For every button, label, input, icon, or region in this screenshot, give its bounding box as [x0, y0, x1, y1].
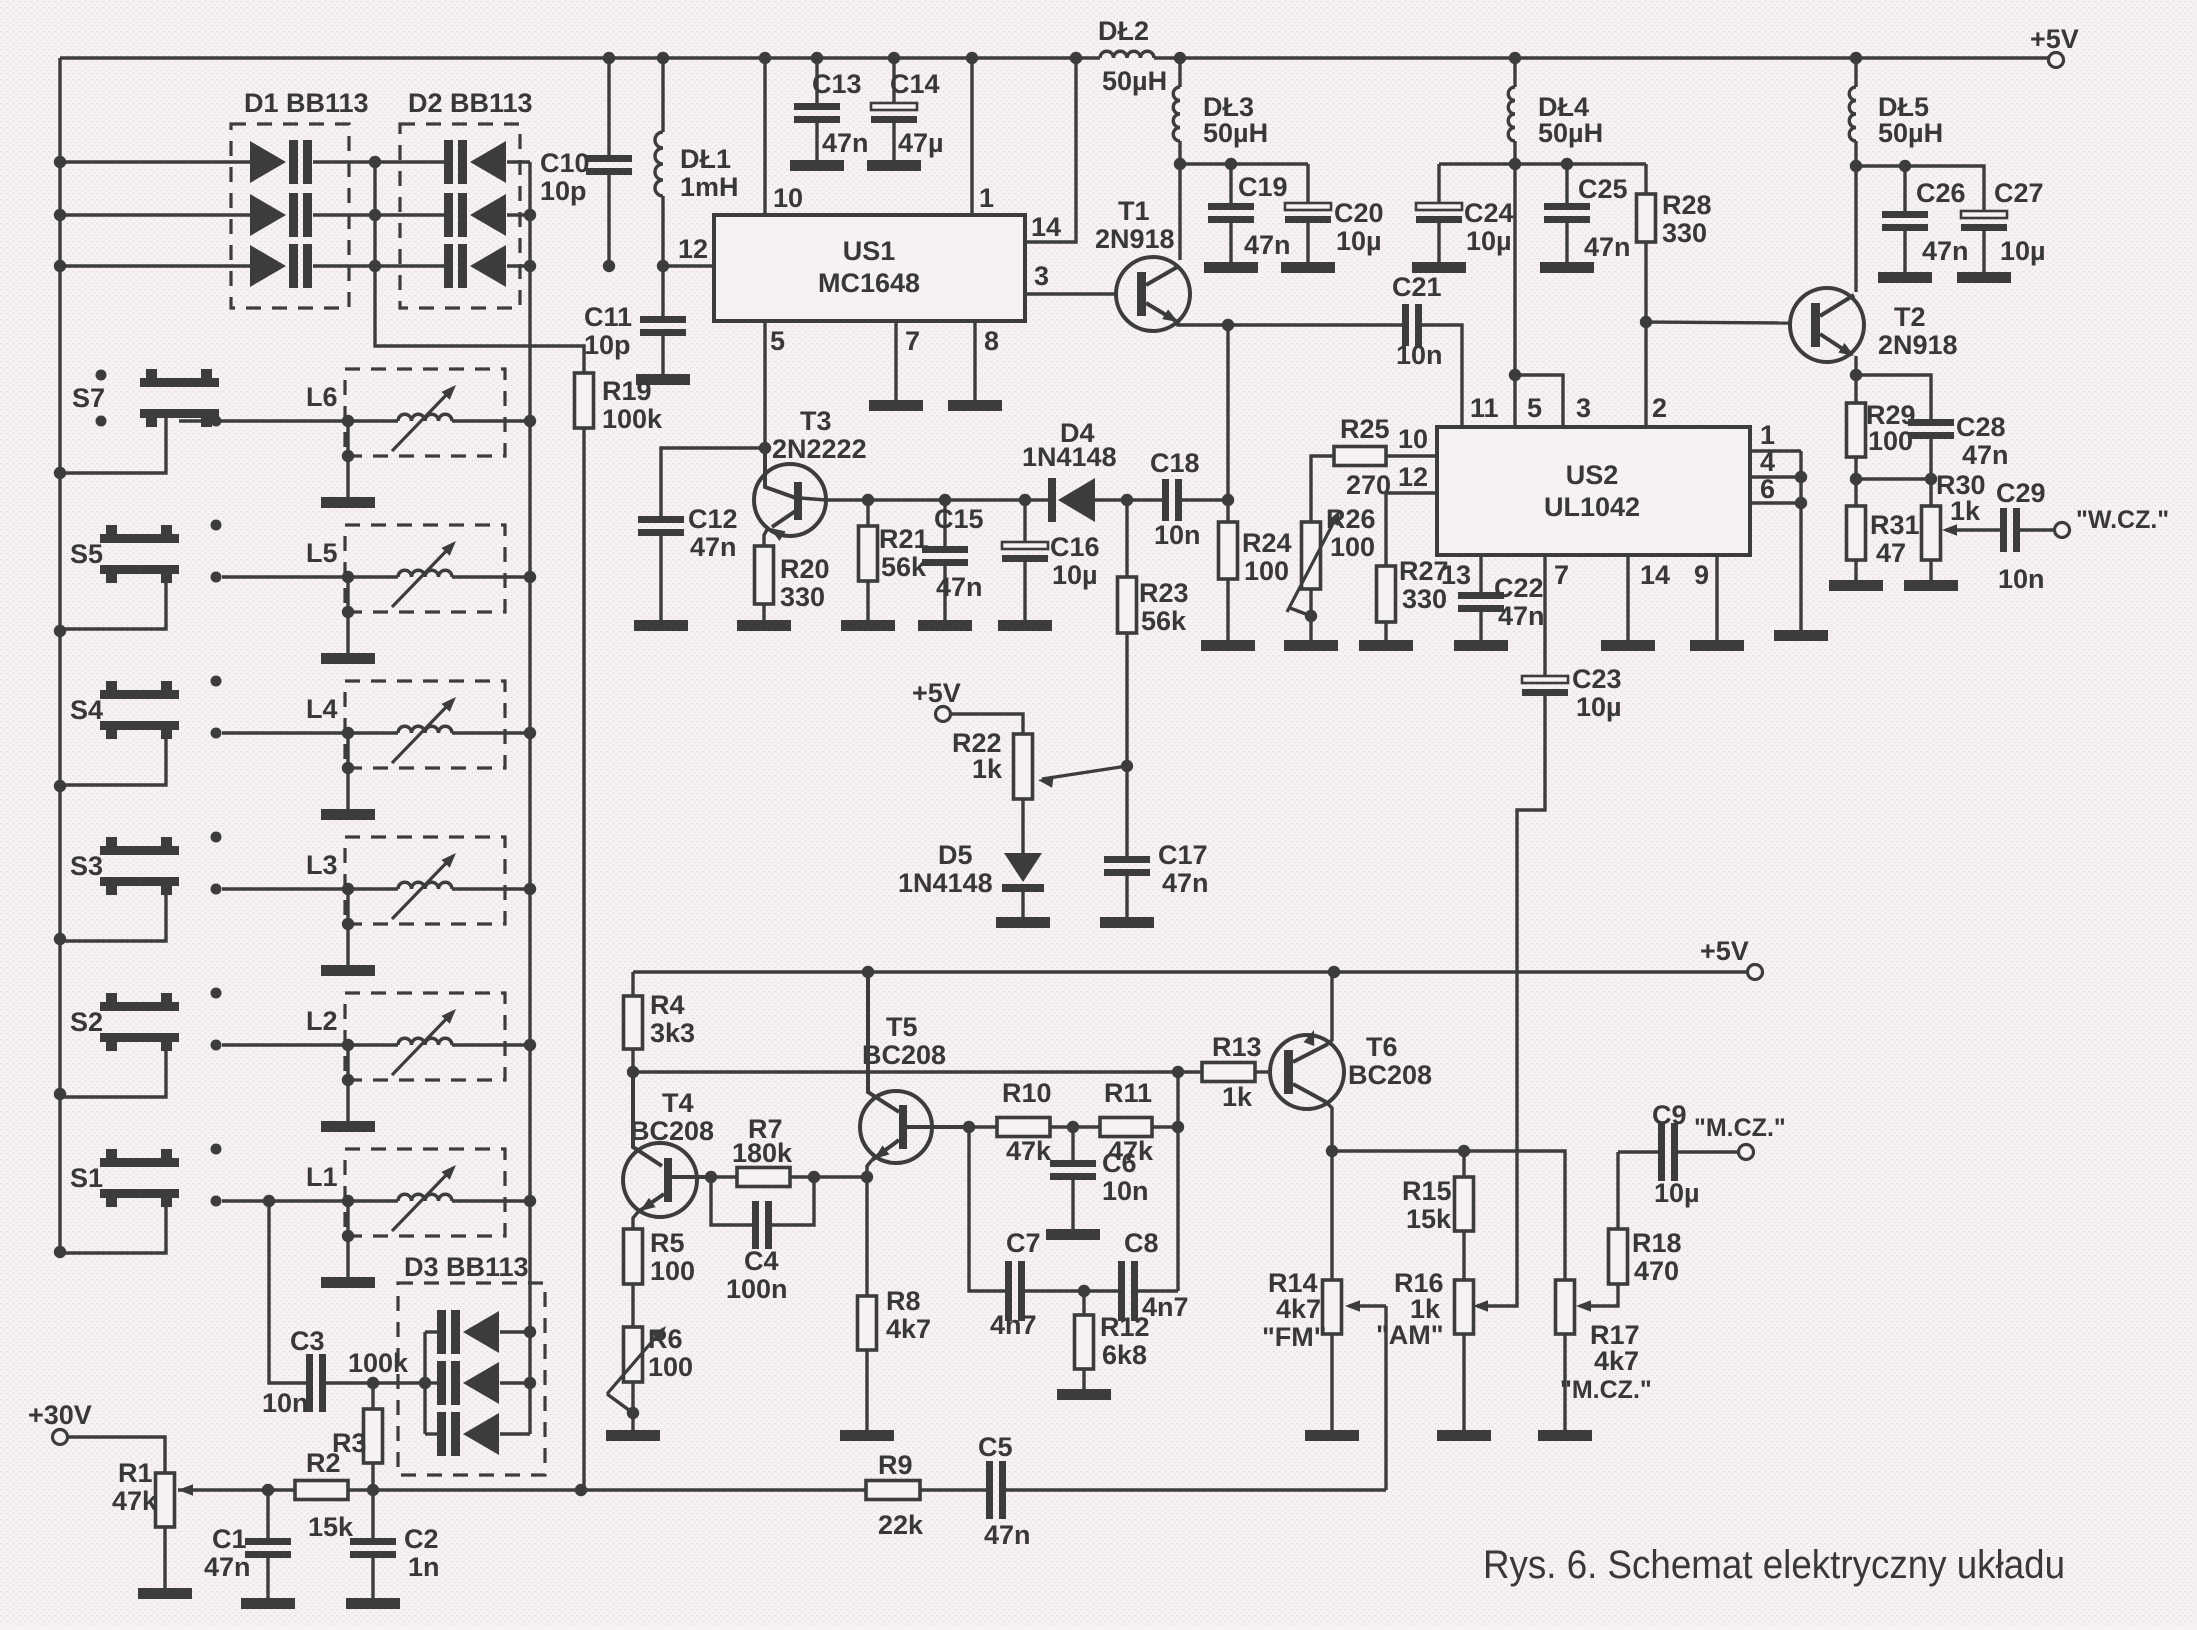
svg-text:4k7: 4k7	[1276, 1294, 1321, 1324]
svg-text:C7: C7	[1006, 1228, 1041, 1258]
svg-text:T5: T5	[886, 1012, 918, 1042]
svg-text:1: 1	[1760, 420, 1775, 450]
svg-text:8: 8	[984, 326, 999, 356]
svg-text:100n: 100n	[726, 1274, 788, 1304]
svg-text:2: 2	[1652, 393, 1667, 423]
svg-text:1N4148: 1N4148	[1022, 442, 1117, 472]
svg-text:14: 14	[1640, 560, 1670, 590]
svg-text:1k: 1k	[1950, 496, 1981, 526]
svg-text:C25: C25	[1578, 174, 1628, 204]
svg-text:22k: 22k	[878, 1510, 924, 1540]
svg-text:T6: T6	[1366, 1032, 1398, 1062]
svg-text:100: 100	[1330, 532, 1375, 562]
svg-text:10p: 10p	[584, 330, 631, 360]
svg-text:+30V: +30V	[28, 1400, 92, 1430]
svg-text:5: 5	[770, 326, 785, 356]
svg-text:T1: T1	[1118, 196, 1150, 226]
svg-text:1: 1	[979, 183, 994, 213]
svg-text:10: 10	[1398, 424, 1428, 454]
svg-text:100: 100	[648, 1352, 693, 1382]
svg-text:R10: R10	[1002, 1078, 1052, 1108]
svg-text:10n: 10n	[1396, 340, 1443, 370]
svg-text:S3: S3	[70, 851, 103, 881]
svg-text:5: 5	[1527, 393, 1542, 423]
svg-text:DŁ2: DŁ2	[1098, 16, 1149, 46]
svg-text:R19: R19	[602, 376, 652, 406]
svg-text:S7: S7	[72, 383, 105, 413]
svg-text:D1 BB113: D1 BB113	[244, 88, 369, 118]
svg-text:100k: 100k	[602, 404, 663, 434]
svg-text:S2: S2	[70, 1007, 103, 1037]
svg-text:3: 3	[1576, 393, 1591, 423]
svg-text:3k3: 3k3	[650, 1018, 695, 1048]
svg-text:R18: R18	[1632, 1228, 1682, 1258]
svg-text:C6: C6	[1102, 1148, 1137, 1178]
svg-text:T3: T3	[800, 406, 832, 436]
svg-text:+5V: +5V	[1700, 936, 1749, 966]
svg-text:MC1648: MC1648	[818, 268, 920, 298]
svg-text:Rys. 6. Schemat elektryczny uk: Rys. 6. Schemat elektryczny układu	[1483, 1543, 2065, 1587]
svg-text:10µ: 10µ	[1466, 226, 1512, 256]
svg-text:47k: 47k	[1006, 1136, 1052, 1166]
svg-text:R28: R28	[1662, 190, 1712, 220]
svg-text:47n: 47n	[1922, 236, 1969, 266]
svg-text:S5: S5	[70, 539, 103, 569]
svg-text:C2: C2	[404, 1524, 439, 1554]
svg-text:R25: R25	[1340, 414, 1390, 444]
svg-text:10µ: 10µ	[1336, 226, 1382, 256]
svg-text:47n: 47n	[1244, 230, 1291, 260]
svg-text:C14: C14	[890, 69, 940, 99]
svg-text:47n: 47n	[1584, 232, 1631, 262]
svg-text:6: 6	[1760, 474, 1775, 504]
svg-text:T4: T4	[662, 1088, 694, 1118]
svg-text:100: 100	[1868, 426, 1913, 456]
svg-text:C12: C12	[688, 504, 738, 534]
svg-text:C28: C28	[1956, 412, 2006, 442]
svg-text:12: 12	[1398, 462, 1428, 492]
svg-text:14: 14	[1031, 212, 1061, 242]
svg-text:100: 100	[650, 1256, 695, 1286]
svg-text:C9: C9	[1652, 1100, 1687, 1130]
svg-text:10µ: 10µ	[2000, 236, 2046, 266]
svg-text:D3 BB113: D3 BB113	[404, 1252, 529, 1282]
svg-text:"M.CZ.": "M.CZ."	[1560, 1376, 1652, 1404]
svg-text:S1: S1	[70, 1163, 103, 1193]
svg-text:10µ: 10µ	[1654, 1178, 1700, 1208]
svg-text:C3: C3	[290, 1326, 325, 1356]
svg-text:C5: C5	[978, 1432, 1013, 1462]
svg-text:50µH: 50µH	[1538, 118, 1603, 148]
svg-text:12: 12	[678, 234, 708, 264]
svg-text:BC208: BC208	[1348, 1060, 1432, 1090]
svg-text:47n: 47n	[1962, 440, 2009, 470]
svg-text:50µH: 50µH	[1203, 118, 1268, 148]
svg-text:"AM": "AM"	[1376, 1320, 1444, 1350]
svg-text:C21: C21	[1392, 272, 1442, 302]
svg-text:1k: 1k	[1222, 1082, 1253, 1112]
svg-text:R20: R20	[780, 554, 830, 584]
svg-text:R21: R21	[879, 524, 929, 554]
svg-text:15k: 15k	[1406, 1204, 1452, 1234]
svg-text:C29: C29	[1996, 478, 2046, 508]
svg-text:9: 9	[1694, 560, 1709, 590]
svg-text:56k: 56k	[1141, 606, 1187, 636]
svg-text:330: 330	[1402, 584, 1447, 614]
svg-text:R11: R11	[1104, 1078, 1152, 1108]
svg-text:C1: C1	[212, 1524, 247, 1554]
svg-text:C8: C8	[1124, 1228, 1159, 1258]
svg-text:47µ: 47µ	[898, 128, 944, 158]
svg-text:10µ: 10µ	[1576, 692, 1622, 722]
svg-text:4n7: 4n7	[990, 1310, 1037, 1340]
svg-text:"M.CZ.": "M.CZ."	[1694, 1114, 1786, 1142]
svg-text:470: 470	[1634, 1256, 1679, 1286]
svg-text:+5V: +5V	[2030, 24, 2079, 54]
svg-text:47: 47	[1876, 538, 1906, 568]
svg-text:47k: 47k	[112, 1486, 158, 1516]
svg-text:R23: R23	[1139, 578, 1189, 608]
svg-text:10µ: 10µ	[1052, 560, 1098, 590]
svg-text:50µH: 50µH	[1878, 118, 1943, 148]
svg-text:DŁ1: DŁ1	[680, 144, 731, 174]
svg-text:3: 3	[1034, 261, 1049, 291]
svg-text:R12: R12	[1100, 1312, 1150, 1342]
svg-text:47n: 47n	[984, 1520, 1031, 1550]
svg-text:2N2222: 2N2222	[772, 434, 867, 464]
svg-text:L5: L5	[306, 538, 338, 568]
svg-text:R4: R4	[650, 990, 685, 1020]
svg-text:11: 11	[1470, 393, 1499, 423]
svg-text:UL1042: UL1042	[1544, 492, 1640, 522]
svg-text:C24: C24	[1464, 198, 1514, 228]
svg-text:10n: 10n	[1102, 1176, 1149, 1206]
svg-text:47n: 47n	[690, 532, 737, 562]
svg-text:L3: L3	[306, 850, 338, 880]
svg-text:10n: 10n	[1998, 564, 2045, 594]
svg-text:10n: 10n	[262, 1388, 309, 1418]
svg-text:C18: C18	[1150, 448, 1200, 478]
svg-text:47n: 47n	[1498, 601, 1545, 631]
svg-text:+5V: +5V	[912, 678, 961, 708]
svg-text:47n: 47n	[1162, 868, 1209, 898]
svg-text:L6: L6	[306, 382, 338, 412]
svg-text:330: 330	[1662, 218, 1707, 248]
svg-text:C10: C10	[540, 148, 590, 178]
svg-text:C15: C15	[934, 504, 984, 534]
svg-text:C16: C16	[1050, 532, 1100, 562]
svg-text:C20: C20	[1334, 198, 1384, 228]
svg-text:R26: R26	[1326, 504, 1376, 534]
svg-text:15k: 15k	[308, 1512, 354, 1542]
svg-text:BC208: BC208	[862, 1040, 946, 1070]
svg-text:R9: R9	[878, 1450, 913, 1480]
svg-text:47n: 47n	[822, 128, 869, 158]
svg-text:D2 BB113: D2 BB113	[408, 88, 533, 118]
svg-text:C11: C11	[584, 302, 632, 332]
svg-text:R15: R15	[1402, 1176, 1452, 1206]
svg-text:C23: C23	[1572, 664, 1622, 694]
svg-text:R1: R1	[118, 1458, 153, 1488]
svg-text:C22: C22	[1494, 573, 1544, 603]
svg-text:R24: R24	[1242, 528, 1292, 558]
svg-text:R31: R31	[1870, 510, 1920, 540]
svg-text:R8: R8	[886, 1286, 921, 1316]
svg-text:L2: L2	[306, 1006, 338, 1036]
svg-text:D5: D5	[938, 840, 973, 870]
svg-text:180k: 180k	[732, 1138, 793, 1168]
svg-text:330: 330	[780, 582, 825, 612]
svg-text:4: 4	[1760, 447, 1775, 477]
svg-text:C27: C27	[1994, 178, 2044, 208]
svg-text:4k7: 4k7	[886, 1314, 931, 1344]
svg-text:2N918: 2N918	[1095, 224, 1175, 254]
svg-text:50µH: 50µH	[1102, 66, 1167, 96]
svg-text:10: 10	[773, 183, 803, 213]
svg-text:C4: C4	[744, 1246, 779, 1276]
svg-text:BC208: BC208	[630, 1116, 714, 1146]
svg-text:S4: S4	[70, 695, 103, 725]
svg-text:R3: R3	[332, 1428, 367, 1458]
svg-text:7: 7	[1554, 560, 1569, 590]
svg-text:C17: C17	[1158, 840, 1208, 870]
svg-text:1n: 1n	[408, 1552, 440, 1582]
svg-text:R27: R27	[1399, 556, 1449, 586]
svg-text:C13: C13	[812, 69, 862, 99]
svg-text:10p: 10p	[540, 176, 587, 206]
svg-text:100: 100	[1244, 556, 1289, 586]
svg-text:2N918: 2N918	[1878, 330, 1958, 360]
svg-text:4k7: 4k7	[1594, 1346, 1639, 1376]
svg-text:T2: T2	[1894, 302, 1926, 332]
svg-text:R13: R13	[1212, 1032, 1262, 1062]
svg-text:L4: L4	[306, 694, 338, 724]
svg-text:56k: 56k	[881, 552, 927, 582]
svg-text:"W.CZ.": "W.CZ."	[2076, 506, 2169, 534]
svg-text:C19: C19	[1238, 172, 1288, 202]
svg-text:1mH: 1mH	[680, 172, 739, 202]
svg-text:6k8: 6k8	[1102, 1340, 1147, 1370]
svg-text:47n: 47n	[204, 1552, 251, 1582]
svg-text:"FM": "FM"	[1262, 1322, 1327, 1352]
svg-text:C26: C26	[1916, 178, 1966, 208]
svg-text:1N4148: 1N4148	[898, 868, 993, 898]
svg-text:R5: R5	[650, 1228, 685, 1258]
svg-text:100k: 100k	[348, 1348, 409, 1378]
svg-text:US2: US2	[1566, 460, 1619, 490]
svg-text:7: 7	[905, 326, 920, 356]
svg-text:L1: L1	[306, 1162, 338, 1192]
svg-text:47n: 47n	[936, 572, 983, 602]
svg-text:10n: 10n	[1154, 520, 1201, 550]
svg-text:US1: US1	[843, 236, 896, 266]
svg-text:1k: 1k	[972, 754, 1003, 784]
